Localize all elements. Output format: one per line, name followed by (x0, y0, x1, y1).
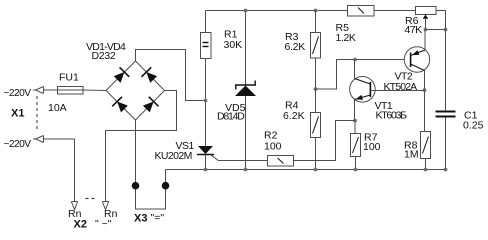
svg-text:X2: X2 (74, 219, 87, 231)
svg-text:6.2K: 6.2K (285, 41, 306, 53)
thyristor VS1 (198, 146, 213, 154)
svg-text:"=": "=" (151, 212, 165, 224)
junction R6 right (444, 28, 448, 32)
wire VT1 base to VT2 collector (371, 90, 425, 92)
junction rail-R3 (314, 9, 318, 13)
wire R3 to node B (315, 58, 317, 89)
wire bridge AC2 link to X2 right pin (106, 91, 177, 202)
junction rail-R7 (354, 168, 358, 172)
connector X1 pin 2 (43, 136, 45, 143)
wire rail to R3 (315, 11, 317, 33)
wire R6 right end down (436, 11, 446, 30)
wire bottom rail (166, 170, 446, 183)
terminal X3 left (132, 182, 140, 190)
svg-text:100: 100 (264, 141, 282, 153)
wire C1 to rail (445, 118, 447, 170)
svg-text:FU1: FU1 (59, 72, 79, 84)
junction node A (204, 99, 208, 103)
wire rail to VD5 cathode (245, 11, 247, 86)
wire VT2 collector down (424, 71, 426, 91)
svg-text:D814D: D814D (217, 111, 245, 123)
junction VT1 emitter / R7 / gate wire (353, 119, 357, 123)
wire node B to VT2 base (316, 60, 405, 90)
connector X2 mating dashes (86, 198, 89, 200)
diode VD2 (142, 67, 159, 84)
junction rail-VS1 (204, 168, 208, 172)
diode VD4 (142, 97, 159, 114)
connector X2 pin left (71, 201, 77, 203)
wire R6 wiper link (426, 29, 446, 31)
resistor R3 (311, 33, 321, 59)
svg-text:10A: 10A (48, 102, 67, 114)
svg-text:1M: 1M (404, 149, 419, 161)
svg-text:~220V: ~220V (4, 88, 32, 99)
svg-text:1.2K: 1.2K (336, 32, 356, 44)
resistor R2 (268, 156, 294, 167)
wire R1 to VS1 anode (205, 59, 207, 147)
wire node B to R4 (315, 89, 317, 113)
junction rail-VD5 (244, 168, 248, 172)
wire VS1 cathode to rail (205, 155, 207, 170)
terminal X3 right (162, 182, 170, 190)
junction rail-R8 (424, 168, 428, 172)
wire R8 to rail (425, 159, 427, 170)
junction VT2 base / VT1 collector (353, 58, 357, 62)
svg-text:6.2K: 6.2K (283, 110, 305, 122)
wire R4 to rail (315, 138, 317, 170)
connector X1 dashed outline (36, 96, 38, 130)
wire FU1 to bridge left corner (83, 89, 106, 92)
junction rail-R4 (314, 168, 318, 172)
junction rail-VD5 (244, 9, 248, 13)
junction rail-C1 (444, 168, 448, 172)
svg-text:X1: X1 (11, 108, 24, 120)
capacitor C1 (436, 111, 456, 113)
wire VD5 anode to rail (245, 96, 247, 170)
fuse FU1 (58, 87, 84, 95)
wire VT1 emitter down (354, 100, 356, 121)
svg-text:KT502A: KT502A (384, 81, 418, 93)
wire X1 pin2 to X2 left pin (44, 139, 75, 202)
wire R6 right to C1 (445, 30, 447, 112)
wire R7 to rail (355, 157, 357, 170)
resistor R1 (201, 33, 212, 59)
wire top rail (R1 corner to R5) (206, 11, 348, 33)
resistor R5 (348, 6, 375, 17)
wire bridge plus to node A (136, 50, 204, 101)
svg-text:100: 100 (363, 141, 381, 153)
wire junction to R7 (354, 121, 356, 134)
junction R6 wiper (424, 28, 428, 32)
svg-text:D232: D232 (92, 50, 116, 62)
transistor VT1 (350, 77, 376, 103)
svg-text:30K: 30K (224, 39, 243, 51)
resistor R8 (421, 132, 431, 159)
diode VD1 (112, 67, 129, 84)
wire X1 pin1 to FU1 (44, 89, 58, 91)
svg-text:X3: X3 (134, 213, 147, 225)
wire X3 shorting link (136, 189, 166, 209)
wire VT1 collector up (354, 60, 356, 79)
wire VT2 emitter up (424, 30, 426, 51)
connector X2 pin right (102, 201, 108, 203)
svg-text:~220V: ~220V (4, 139, 32, 150)
transistor VT2 (404, 47, 429, 72)
svg-text:KT603Б: KT603Б (376, 110, 408, 122)
bridge rectifier VD1-VD4 diamond (106, 61, 165, 120)
wire VT2 collector to R8 (424, 90, 426, 131)
resistor R4 (311, 113, 321, 138)
wire R2 to VS1 gate (218, 160, 268, 162)
potentiometer R6 (416, 7, 437, 15)
connector X1 pin 1 (43, 87, 45, 94)
junction VT2 collector / VT1 base (423, 88, 427, 92)
svg-text:47K: 47K (405, 24, 423, 36)
wire rail R5 to R6 (374, 10, 415, 12)
svg-text:0.25: 0.25 (463, 120, 484, 132)
wire bridge minus to X3 left terminal (135, 120, 137, 182)
diode VD3 (112, 97, 129, 114)
junction node B (314, 87, 318, 91)
zener diode VD5 (235, 84, 256, 86)
svg-text:KU202M: KU202M (155, 150, 192, 162)
svg-text:" ~": " ~" (95, 218, 112, 230)
wire VT1 emitter to R2 (294, 121, 356, 161)
resistor R7 (351, 134, 361, 157)
